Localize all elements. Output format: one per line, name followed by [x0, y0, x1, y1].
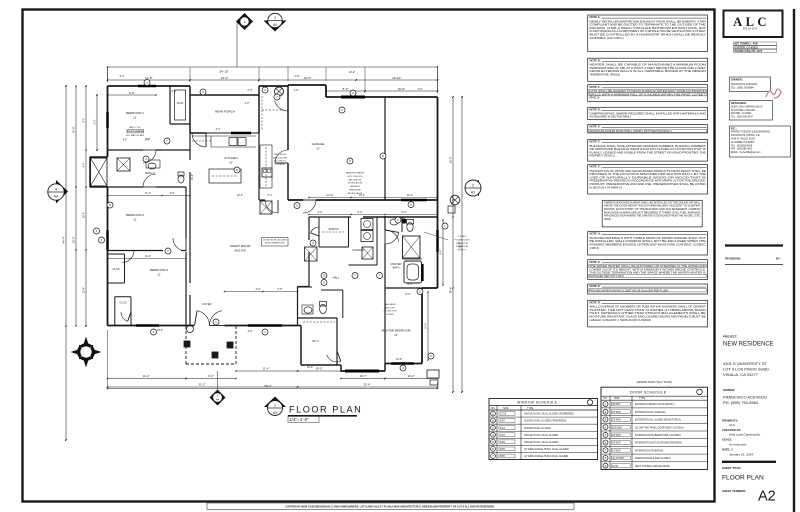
tag 4	[151, 329, 157, 335]
svg-text:BEDROOM 1: BEDROOM 1	[126, 111, 144, 115]
tag 9	[321, 280, 327, 286]
compass north arrow	[71, 337, 102, 368]
svg-text:WINDOW SCHEDULE: WINDOW SCHEDULE	[517, 401, 558, 405]
tag 2	[395, 217, 401, 223]
svg-text:FOYER: FOYER	[202, 302, 211, 306]
svg-text:BEDROOM 2: BEDROOM 2	[126, 213, 144, 217]
porch column	[275, 87, 284, 96]
svg-text:EXTERIOR DUAL (GARAGE): EXTERIOR DUAL (GARAGE)	[635, 411, 666, 414]
svg-text:3'-2": 3'-2"	[120, 75, 125, 78]
section marker top diamond	[236, 13, 253, 67]
svg-text:LOT 9 LOS PINOS SUBD.: LOT 9 LOS PINOS SUBD.	[723, 367, 770, 372]
svg-text:34'-10": 34'-10"	[219, 70, 228, 74]
svg-text:VENT HOOD: VENT HOOD	[274, 154, 287, 156]
window schedule table	[489, 399, 598, 460]
svg-text:31'-4": 31'-4"	[363, 383, 370, 387]
svg-text:14'-0": 14'-0"	[72, 127, 76, 134]
svg-text:BATH 2: BATH 2	[145, 171, 155, 175]
tag 1	[442, 223, 448, 229]
svg-text:EMAIL : PerfectDE@aol.com: EMAIL : PerfectDE@aol.com	[731, 151, 761, 154]
master bath label	[391, 262, 402, 270]
central top wall y217	[309, 216, 438, 218]
note water closet box	[588, 284, 708, 294]
svg-text:NO.: NO.	[603, 397, 608, 400]
note D box	[588, 107, 708, 119]
svg-text:NOTE H:: NOTE H:	[590, 232, 601, 236]
exterior wall - bottom left (bed3)	[108, 325, 195, 327]
svg-text:VEHICULAR ACCESS DOOR SHALL CO: VEHICULAR ACCESS DOOR SHALL COMPLY WITH …	[590, 129, 673, 133]
svg-text:8'-0": 8'-0"	[358, 211, 363, 214]
tag 4	[491, 432, 496, 437]
wic room	[303, 322, 335, 343]
exterior wall - right side	[437, 97, 439, 288]
room label master bedroom	[382, 329, 411, 338]
svg-text:TYPE: TYPE	[639, 397, 646, 400]
dimension bottom small	[157, 293, 411, 369]
room label garage	[312, 142, 325, 151]
master shower	[403, 236, 421, 258]
tag 8	[603, 455, 608, 460]
room label bedroom3	[150, 268, 168, 277]
witness lines top	[108, 67, 438, 93]
garage right wall x385	[384, 97, 386, 200]
svg-text:22"X30" ATTIC ACCESS: 22"X30" ATTIC ACCESS	[263, 239, 288, 242]
svg-text:10'-4": 10'-4"	[83, 212, 86, 218]
svg-text:NOTE D:: NOTE D:	[590, 284, 601, 288]
tag 3	[603, 417, 608, 422]
section marker left	[48, 180, 68, 204]
note carbon monoxide box	[602, 200, 702, 227]
hall bath fixtures	[302, 302, 327, 315]
annotation kitchen hood	[273, 154, 287, 166]
svg-text:GREAT ROOM: GREAT ROOM	[230, 244, 251, 248]
svg-text:13'-2": 13'-2"	[145, 255, 151, 258]
svg-text:AND 220V: AND 220V	[385, 306, 395, 309]
svg-text:16'-0": 16'-0"	[316, 367, 323, 371]
svg-text:(2) CAR TWO PANEL DOOR (SELF C: (2) CAR TWO PANEL DOOR (SELF CLOSING)	[635, 426, 684, 429]
section marker right	[465, 180, 481, 196]
svg-text:FRANCISCO ACEVEDO: FRANCISCO ACEVEDO	[723, 394, 767, 399]
svg-text:(3)'X8'0": (3)'X8'0"	[612, 404, 621, 406]
svg-text:GARAGE: GARAGE	[312, 142, 325, 146]
svg-text:A4: A4	[273, 23, 277, 27]
tag 5	[428, 353, 434, 359]
tag 1	[603, 402, 608, 407]
svg-text:SINGLE HUNG DUAL GLAZED: SINGLE HUNG DUAL GLAZED	[524, 434, 559, 437]
front porch outline	[184, 326, 236, 365]
svg-text:23'-2": 23'-2"	[408, 374, 415, 378]
kitchen island dashed	[209, 169, 241, 183]
dimension top small texts	[120, 71, 423, 93]
svg-text:6'X5': 6'X5'	[500, 420, 506, 423]
svg-text:NOTE F:: NOTE F:	[590, 140, 601, 144]
svg-text:MIN 5.7 S.F.: MIN 5.7 S.F.	[129, 127, 141, 129]
owner block lower	[723, 388, 767, 405]
svg-text:16'X8': 16'X8'	[612, 466, 619, 468]
drawn by block	[722, 418, 760, 456]
svg-text:SLIDING DUAL GLAZED (TEMPERED): SLIDING DUAL GLAZED (TEMPERED)	[524, 420, 566, 423]
designer info box	[730, 101, 773, 121]
svg-text:16'-0": 16'-0"	[191, 174, 194, 180]
sheet number block	[722, 489, 776, 505]
svg-text:627 POWELL AVE AVE.: 627 POWELL AVE AVE.	[731, 109, 756, 112]
svg-text:PANTRY: PANTRY	[329, 227, 340, 231]
svg-text:NO.: NO.	[491, 407, 496, 410]
svg-text:627 POWELL AVE.: 627 POWELL AVE.	[735, 42, 759, 46]
svg-text:16'-0": 16'-0"	[349, 71, 355, 74]
room label bedroom1	[126, 111, 144, 120]
room label foyer	[202, 302, 211, 306]
annotation garage gas note	[383, 303, 397, 316]
svg-text:OUTLET FOR: OUTLET FOR	[383, 311, 397, 313]
tag 5	[107, 202, 113, 208]
svg-text:13'-10": 13'-10"	[392, 76, 401, 80]
door arc master bedroom	[385, 230, 399, 244]
annotation pocket door	[424, 232, 470, 252]
svg-text:10': 10'	[229, 161, 233, 165]
svg-text:8'X5': 8'X5'	[500, 448, 506, 451]
svg-text:HTR. 199K BTU: HTR. 199K BTU	[347, 176, 363, 178]
svg-text:2: 2	[472, 183, 474, 187]
door arc bed1	[143, 150, 156, 163]
svg-text:GERMAN DOOR (TALLY DOOR): GERMAN DOOR (TALLY DOOR)	[637, 381, 673, 384]
svg-text:NOTE A:: NOTE A:	[590, 15, 601, 19]
svg-text:44'-4": 44'-4"	[62, 236, 66, 244]
svg-text:11'-4": 11'-4"	[263, 367, 270, 371]
svg-text:WALLS WITH A MINIMUM FALL OF 6: WALLS WITH A MINIMUM FALL OF 6 INCHES WI…	[590, 92, 707, 96]
sheet title block	[722, 462, 776, 482]
tag 2	[491, 418, 496, 423]
svg-text:PHONE (559) 731-1472: PHONE (559) 731-1472	[735, 49, 763, 53]
svg-text:5'-0": 5'-0"	[94, 119, 97, 124]
svg-text:APPLIANCES NOR WHERE THE GARAG: APPLIANCES NOR WHERE THE GARAGE IS DETAC…	[604, 214, 701, 218]
svg-text:NOTE 'S': NOTE 'S'	[458, 250, 467, 252]
svg-text:2'8"X8'0": 2'8"X8'0"	[612, 420, 621, 422]
ac units outside	[427, 370, 439, 385]
svg-text:CLOS: CLOS	[112, 267, 119, 271]
svg-text:TEMPERATURE. (R303.8): TEMPERATURE. (R303.8)	[590, 72, 621, 76]
tag 7	[165, 248, 171, 254]
svg-text:DRAWN BY:: DRAWN BY:	[722, 418, 738, 422]
svg-text:SINGLE HUNG DUAL GLAZED (TEMP: SINGLE HUNG DUAL GLAZED (TEMPERED)	[524, 413, 574, 416]
svg-text:SILL MAX 44" AFF: SILL MAX 44" AFF	[126, 134, 145, 137]
svg-text:AS REQUIRED IN SECTION R406.1: AS REQUIRED IN SECTION R406.1	[590, 115, 632, 119]
note B box	[588, 58, 708, 81]
tag 1	[262, 329, 268, 335]
kitchen left dim	[191, 174, 194, 180]
tag 6	[347, 158, 353, 164]
dimension left col4	[94, 94, 98, 151]
svg-text:EXTERIOR FRENCH DOOR (ENTRY): EXTERIOR FRENCH DOOR (ENTRY)	[635, 404, 675, 406]
svg-text:SCALE:: SCALE:	[722, 437, 732, 441]
closet bed3 upper	[108, 254, 125, 283]
room label bedroom2	[126, 213, 144, 222]
svg-text:10'-2": 10'-2"	[221, 76, 229, 80]
attic access hatch	[305, 247, 318, 261]
svg-text:8'-4": 8'-4"	[440, 249, 443, 254]
svg-text:8'-0": 8'-0"	[343, 87, 349, 91]
tag 10	[321, 273, 327, 279]
door arc kitchen strip bottom	[259, 200, 278, 213]
svg-text:3'-6": 3'-6"	[123, 140, 128, 142]
svg-text:12': 12'	[133, 116, 137, 120]
tag 4	[400, 365, 406, 371]
svg-text:NEW RESIDENCE: NEW RESIDENCE	[723, 342, 774, 348]
kitchen counters	[192, 136, 256, 147]
svg-text:NOTE C:: NOTE C:	[590, 85, 601, 89]
svg-text:PROVIDE WATER SAVING CLOSET W/: PROVIDE WATER SAVING CLOSET W/1.28 GALLO…	[590, 288, 669, 292]
exterior wall - wic block	[298, 318, 342, 365]
dimension top row3	[107, 87, 439, 96]
svg-text:NOTE E:: NOTE E:	[590, 125, 601, 129]
svg-text:16'-0": 16'-0"	[304, 76, 312, 80]
svg-text:CLOS: CLOS	[119, 301, 126, 305]
svg-text:FRENCH DOOR (LINEN CLOSET): FRENCH DOOR (LINEN CLOSET)	[635, 458, 671, 460]
tag 5	[294, 203, 300, 209]
great room right wall	[298, 217, 310, 326]
svg-text:10'-4": 10'-4"	[83, 287, 86, 293]
room label great room	[230, 244, 251, 253]
svg-text:R315): R315)	[604, 217, 611, 221]
svg-text:5'-8": 5'-8"	[278, 288, 283, 291]
note E box	[588, 125, 708, 133]
svg-text:PROJECT:: PROJECT:	[723, 335, 737, 339]
svg-text:VISALIA, CA 93277: VISALIA, CA 93277	[723, 372, 759, 377]
dimension top row2	[107, 76, 439, 81]
svg-text:INTERIOR DOOR (BATHS): INTERIOR DOOR (BATHS)	[635, 449, 663, 452]
tag 6	[603, 440, 608, 445]
door arc clos2	[121, 312, 131, 321]
tag 2	[350, 90, 356, 96]
svg-text:18'-4": 18'-4"	[237, 194, 243, 197]
tag 7	[491, 454, 496, 459]
svg-text:(2) WIDE SINGLE HUNG DUAL GLA: (2) WIDE SINGLE HUNG DUAL GLAZED	[524, 448, 569, 451]
svg-text:PH: (559) 793-8984: PH: (559) 793-8984	[723, 400, 759, 405]
master tub	[404, 261, 423, 283]
svg-text:12'X5': 12'X5'	[500, 413, 507, 416]
svg-text:DESIGNER:: DESIGNER:	[731, 101, 747, 105]
svg-text:As Indicated: As Indicated	[729, 442, 746, 446]
svg-text:12'X5'0 EGRESS: 12'X5'0 EGRESS	[126, 131, 144, 133]
dimension right col1	[449, 96, 454, 393]
tag 7	[377, 273, 383, 279]
svg-text:4: 4	[55, 187, 57, 191]
interior dim texts	[145, 89, 413, 291]
svg-text:SIZE: SIZE	[503, 407, 509, 410]
note H box	[588, 232, 708, 255]
svg-text:A3: A3	[273, 411, 277, 415]
svg-text:4.505.3): 4.505.3)	[590, 246, 599, 250]
dimension bottom row2	[107, 383, 439, 388]
svg-text:8'-3": 8'-3"	[208, 374, 213, 378]
svg-text:A3: A3	[471, 191, 475, 195]
door arc wic	[327, 351, 341, 362]
svg-text:6'X4': 6'X4'	[500, 427, 506, 430]
door arc porch to hall	[275, 97, 289, 111]
svg-text:IN SECTION 4 OF AWPA U1.: IN SECTION 4 OF AWPA U1.	[590, 185, 624, 189]
door arc pantry	[311, 227, 320, 236]
exterior wall - rear patio bottom	[341, 364, 385, 372]
svg-text:11'-8": 11'-8"	[145, 76, 152, 80]
svg-text:8'-0": 8'-0"	[402, 211, 407, 214]
svg-text:OUTSIDE: OUTSIDE	[275, 164, 285, 166]
svg-text:12': 12'	[133, 218, 137, 222]
svg-text:DRYER: DRYER	[386, 314, 394, 316]
svg-text:A4: A4	[216, 398, 220, 402]
svg-text:RAYMOND M. ZHONG, P.E.: RAYMOND M. ZHONG, P.E.	[731, 134, 760, 137]
room label clos1	[177, 102, 184, 105]
svg-text:FRANCISCO ACEVEDO: FRANCISCO ACEVEDO	[731, 83, 757, 86]
svg-text:W.I.C.: W.I.C.	[312, 339, 320, 343]
tag 8	[234, 167, 240, 173]
svg-text:FAX : (626)289-4413: FAX : (626)289-4413	[731, 148, 753, 151]
note A box	[588, 15, 708, 52]
svg-text:PROPERTY. (R319.1): PROPERTY. (R319.1)	[590, 154, 615, 158]
bottom disclaimer strip	[207, 503, 574, 510]
svg-text:11'-4": 11'-4"	[145, 192, 151, 195]
hall dashed ceiling lines	[262, 96, 284, 130]
svg-text:16'0"X8'0": 16'0"X8'0"	[612, 427, 623, 429]
bath2 fixtures	[117, 158, 184, 183]
svg-text:5'-8": 5'-8"	[172, 90, 177, 93]
svg-text:TYPE: TYPE	[527, 407, 534, 410]
svg-text:GAS VALVE: GAS VALVE	[384, 303, 396, 306]
exterior wall - master bedroom bottom	[385, 363, 422, 365]
svg-text:3'X3': 3'X3'	[500, 434, 506, 437]
svg-text:NOTE D:: NOTE D:	[590, 107, 601, 111]
wall bed1 closet	[170, 86, 190, 124]
project block	[723, 335, 774, 378]
svg-text:2'4"X8'0": 2'4"X8'0"	[612, 450, 621, 452]
tag 7	[603, 448, 608, 453]
hall bath walls	[297, 287, 343, 318]
tag 7	[352, 273, 358, 279]
tag 5	[491, 439, 496, 444]
svg-text:W/30" HEADROOM: W/30" HEADROOM	[265, 242, 285, 245]
dimension top overall	[107, 66, 439, 93]
tag 9	[200, 89, 206, 95]
section marker top circle A4	[264, 13, 287, 31]
tag 4	[143, 156, 149, 162]
master bath walls	[385, 217, 422, 288]
svg-text:16'-0": 16'-0"	[397, 87, 405, 91]
kitchen walls and porch bottom	[190, 95, 259, 200]
svg-text:3'-0": 3'-0"	[216, 128, 221, 131]
door arc porch	[192, 133, 206, 147]
svg-text:NOTE B:: NOTE B:	[590, 58, 601, 62]
tag 1	[144, 80, 150, 86]
svg-text:16'-0": 16'-0"	[449, 157, 453, 164]
tag 6	[408, 202, 414, 208]
svg-text:10'-10": 10'-10"	[326, 194, 334, 197]
exterior wall - left side	[107, 86, 109, 326]
room label kitchen	[224, 156, 237, 165]
svg-text:NOTE R:: NOTE R:	[590, 300, 601, 304]
svg-text:MASTER BEDROOM: MASTER BEDROOM	[382, 329, 411, 333]
svg-text:9'-0": 9'-0"	[129, 91, 135, 95]
svg-text:Alba Lyda Carranquillo: Alba Lyda Carranquillo	[729, 432, 760, 436]
tag 9	[603, 463, 608, 468]
svg-text:10'-0": 10'-0"	[396, 358, 402, 361]
exterior wall - great room bottom	[225, 325, 298, 327]
svg-text:EXETER, CA 93221: EXETER, CA 93221	[731, 112, 752, 115]
exterior wall - garage top	[288, 85, 438, 97]
svg-text:1'-6": 1'-6"	[294, 89, 299, 92]
tag 9	[310, 240, 316, 246]
svg-text:REAR PORCH: REAR PORCH	[215, 110, 235, 114]
note F box	[588, 140, 708, 162]
svg-text:BATH: BATH	[393, 266, 400, 270]
dimension bottom row3	[107, 330, 439, 389]
svg-text:A4: A4	[54, 195, 58, 199]
floor plan title text	[288, 405, 362, 423]
svg-text:SHEET NUMBER:: SHEET NUMBER:	[722, 489, 746, 493]
svg-text:LAUNDRY: LAUNDRY	[352, 248, 365, 252]
svg-text:10'-4": 10'-4"	[157, 329, 163, 332]
svg-text:FLOOR PLAN: FLOOR PLAN	[722, 475, 764, 482]
svg-text:BY:: BY:	[776, 257, 781, 261]
svg-text:KITCHEN: KITCHEN	[224, 156, 237, 160]
door arc bed2	[143, 174, 156, 187]
bed1 egress window note	[123, 127, 150, 142]
master suite left wall x385	[384, 216, 386, 364]
svg-text:16'-4": 16'-4"	[407, 194, 413, 197]
svg-text:PERFECT DESIGN & ENGINEERING: PERFECT DESIGN & ENGINEERING	[731, 132, 770, 134]
exterior wall - bedroom1 top	[108, 85, 191, 87]
note S box	[588, 260, 708, 280]
svg-text:1/4"=1'-0": 1/4"=1'-0"	[289, 417, 309, 422]
svg-text:January 22, 2024: January 22, 2024	[729, 453, 753, 457]
annotation attic access	[262, 238, 289, 247]
svg-text:2'-8": 2'-8"	[146, 138, 151, 141]
tag 4	[603, 425, 608, 430]
svg-text:2'8"X8'0": 2'8"X8'0"	[612, 435, 621, 437]
svg-text:2419 W. VALLEY BLVD.: 2419 W. VALLEY BLVD.	[731, 138, 756, 141]
svg-text:3'-0": 3'-0"	[256, 288, 261, 291]
svg-text:2'-8": 2'-8"	[295, 75, 300, 78]
svg-text:14'-4": 14'-4"	[425, 323, 428, 329]
dimension right col2	[458, 96, 463, 393]
dimension left col1	[62, 85, 67, 441]
svg-text:36'-8": 36'-8"	[458, 241, 462, 249]
svg-text:12': 12'	[394, 333, 398, 337]
svg-text:CHECKED BY:: CHECKED BY:	[722, 428, 741, 432]
tag 1	[213, 319, 219, 325]
water heater outside	[448, 195, 460, 213]
svg-text:SLIDING DUAL GLAZED: SLIDING DUAL GLAZED	[524, 427, 551, 430]
alc design logo box	[724, 11, 783, 38]
dimension left col2	[72, 85, 77, 327]
wall bedroom right x186	[185, 187, 187, 326]
svg-text:FLOOR PLAN: FLOOR PLAN	[289, 405, 362, 415]
svg-text:ALC: ALC	[729, 423, 736, 427]
door arc bed3	[122, 251, 134, 263]
svg-text:14'-4": 14'-4"	[449, 287, 453, 294]
svg-text:MIN. 100 CFM: MIN. 100 CFM	[273, 157, 287, 159]
svg-text:8'-4": 8'-4"	[408, 283, 413, 286]
door arc garage entry	[275, 150, 288, 163]
tag 7	[274, 94, 280, 100]
svg-text:8'-0": 8'-0"	[406, 293, 411, 296]
window and door tag circles	[94, 80, 449, 372]
svg-text:A2: A2	[758, 489, 776, 505]
svg-text:ALHAMBRA CA 91803: ALHAMBRA CA 91803	[731, 141, 755, 144]
svg-text:2'6"X8'0": 2'6"X8'0"	[612, 443, 621, 445]
svg-text:TEL : (559) 793-8984: TEL : (559) 793-8984	[731, 87, 754, 90]
svg-text:10: 10	[322, 274, 326, 278]
kitchen strip wall x288	[287, 85, 289, 200]
svg-text:DESIGN: DESIGN	[743, 27, 758, 31]
